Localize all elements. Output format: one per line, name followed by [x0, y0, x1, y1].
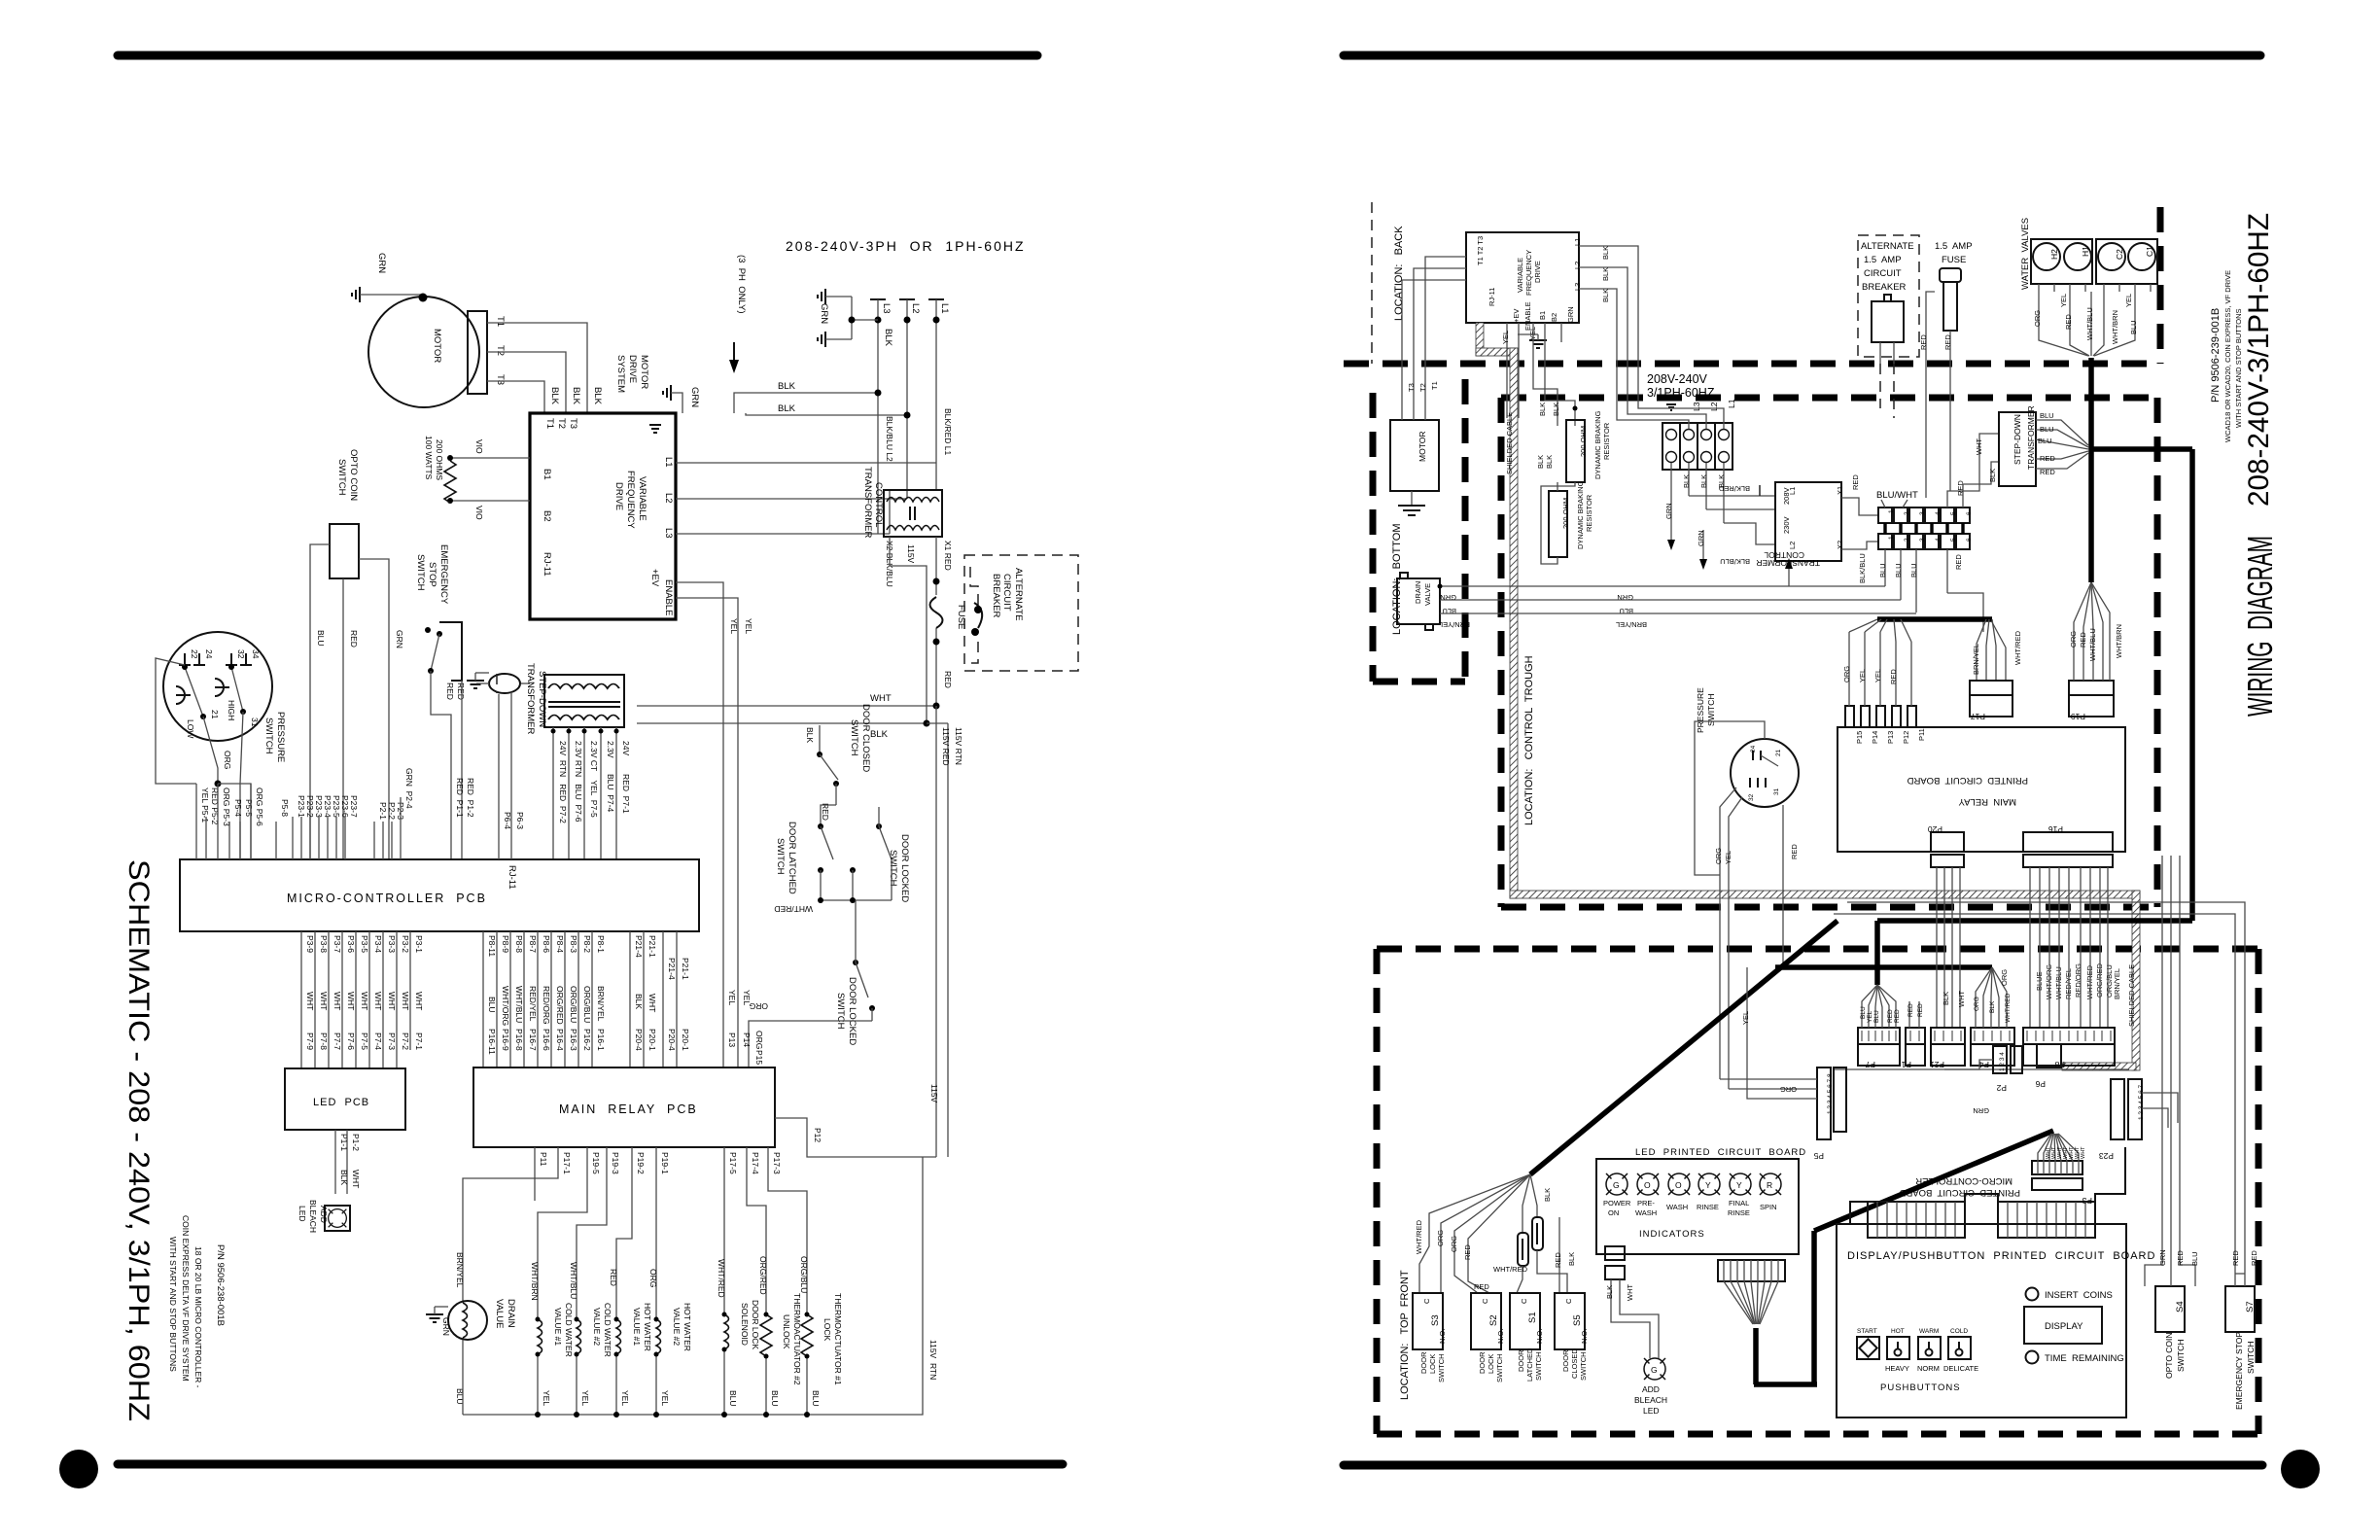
- main relay PCB U4: [473, 1067, 775, 1147]
- svg-text:WHT: WHT: [401, 992, 410, 1010]
- svg-text:LED: LED: [297, 1206, 307, 1222]
- svg-text:BLK/BLU: BLK/BLU: [1858, 553, 1867, 583]
- svg-text:VALUE #2: VALUE #2: [592, 1308, 602, 1346]
- ground pin symbol in VFD: [649, 424, 661, 426]
- circuit breaker CB1 alternate dashed box: [964, 555, 1078, 671]
- svg-text:RED: RED: [2079, 632, 2087, 647]
- wire pin6 top: [1963, 462, 1999, 507]
- svg-text:31: 31: [250, 717, 260, 727]
- wire P17-4: [747, 1147, 766, 1314]
- svg-text:HOT WATER: HOT WATER: [643, 1303, 652, 1351]
- svg-text:N.O.: N.O.: [1438, 1329, 1447, 1344]
- svg-text:T2: T2: [495, 345, 506, 356]
- svg-text:S5: S5: [1572, 1314, 1583, 1326]
- svg-text:R: R: [1767, 1180, 1772, 1190]
- svg-text:BLU: BLU: [2038, 437, 2052, 445]
- svg-text:LATCHED: LATCHED: [1525, 1347, 1534, 1382]
- ground at motor: [352, 287, 360, 302]
- wire pin5 top to step-down: [1947, 434, 1999, 507]
- svg-text:WHT: WHT: [2081, 1146, 2086, 1159]
- wire X1 RED to connector: [1841, 498, 1878, 515]
- LED comb connector: [1718, 1260, 1785, 1281]
- svg-text:ORG: ORG: [1842, 666, 1851, 682]
- wires pressure switch: [1695, 721, 1765, 875]
- wire P19-1: [655, 1147, 657, 1319]
- svg-text:HIGH: HIGH: [227, 700, 236, 720]
- fuse wires: [1925, 303, 1927, 364]
- thick wire trunk A: [2091, 446, 2192, 452]
- svg-text:GRN: GRN: [441, 1317, 451, 1336]
- svg-text:RED: RED: [1887, 1009, 1894, 1023]
- svg-text:P14: P14: [742, 1032, 752, 1047]
- svg-text:CONTROL: CONTROL: [873, 482, 884, 527]
- svg-text:P8-11: P8-11: [487, 935, 497, 957]
- P3 connector comb: [2032, 1161, 2082, 1174]
- svg-text:YEL: YEL: [1741, 1011, 1750, 1025]
- svg-text:VALUE #2: VALUE #2: [672, 1308, 682, 1346]
- WHT labels: [2046, 1146, 2086, 1159]
- wire BLK upper horizontal: [734, 393, 878, 413]
- svg-text:RED/ORG: RED/ORG: [542, 986, 551, 1025]
- svg-text:BLEACH: BLEACH: [1634, 1395, 1667, 1405]
- svg-text:DOOR LATCHED: DOOR LATCHED: [787, 822, 797, 894]
- svg-text:T1: T1: [1430, 381, 1439, 390]
- svg-text:TRANSFORMER: TRANSFORMER: [525, 663, 536, 735]
- svg-text:P19-3: P19-3: [611, 1152, 620, 1174]
- svg-text:RED: RED: [1917, 1003, 1924, 1017]
- svg-text:COLD WATER: COLD WATER: [603, 1303, 612, 1357]
- wire xfmr 2.3V CT: [583, 727, 585, 859]
- switch S3: [1413, 1293, 1443, 1349]
- wire motor T1: [487, 323, 587, 413]
- arrow 3ph only: [733, 342, 735, 362]
- wire opto GRN: [359, 559, 389, 859]
- ground GRN jumper upper: [818, 289, 825, 304]
- svg-text:GRN: GRN: [689, 387, 700, 407]
- svg-text:WHT/BRN: WHT/BRN: [2111, 310, 2119, 344]
- door locked switch 2: [853, 960, 858, 965]
- svg-text:ADD: ADD: [1642, 1384, 1660, 1394]
- LED pre-wash: [1637, 1173, 1659, 1195]
- connector block 1-6 top row: [1878, 507, 1970, 523]
- right page binder dot: [2281, 1450, 2320, 1488]
- svg-text:24V RTN RED P7-2: 24V RTN RED P7-2: [558, 741, 568, 823]
- connector P2: [1993, 1046, 2007, 1073]
- svg-text:RED: RED: [1894, 1009, 1901, 1023]
- pressure switch PS1: [163, 632, 272, 741]
- svg-text:P5-4: P5-4: [233, 799, 243, 817]
- svg-text:ORG/BLU: ORG/BLU: [569, 986, 578, 1023]
- svg-text:P16-8: P16-8: [514, 1029, 524, 1051]
- svg-text:YEL: YEL: [580, 1390, 590, 1406]
- svg-text:BLEACH: BLEACH: [308, 1200, 318, 1233]
- svg-text:6: 6: [1966, 511, 1973, 515]
- svg-text:LOCK: LOCK: [1428, 1354, 1437, 1374]
- svg-text:P17-3: P17-3: [772, 1152, 782, 1174]
- svg-text:ON: ON: [1608, 1208, 1619, 1217]
- svg-text:YEL: YEL: [660, 1390, 670, 1406]
- svg-text:22: 22: [190, 649, 199, 659]
- svg-text:RED P1-1: RED P1-1: [455, 778, 465, 818]
- svg-text:RJ-11: RJ-11: [542, 552, 552, 577]
- node L3 tick: [870, 298, 886, 300]
- svg-text:(3 PH ONLY): (3 PH ONLY): [736, 255, 747, 319]
- wire bottom bus 115V RTN: [463, 1157, 923, 1415]
- svg-text:CIRCUIT: CIRCUIT: [1001, 574, 1012, 612]
- wire VFD L3 to bus: [676, 533, 890, 535]
- svg-text:SYSTEM: SYSTEM: [615, 355, 626, 393]
- svg-text:RED: RED: [2176, 1250, 2185, 1266]
- terminal block TB1: [1662, 423, 1732, 470]
- location control trough box: [1501, 395, 2157, 402]
- svg-text:24V RED P7-1: 24V RED P7-1: [621, 741, 631, 814]
- svg-text:S1: S1: [1527, 1312, 1538, 1323]
- card edge comb 1: [1868, 1202, 1965, 1238]
- fan above P3: [2038, 1134, 2051, 1161]
- fan into P7: [1862, 985, 1877, 1028]
- valve C1: [2128, 243, 2155, 270]
- wires P6: [498, 694, 500, 859]
- svg-text:O: O: [1675, 1180, 1682, 1190]
- svg-text:P20-4: P20-4: [667, 1029, 677, 1051]
- wires into S4: [2145, 856, 2162, 1286]
- LED add bleach: [325, 1206, 350, 1231]
- ground GRN at VFD top: [663, 385, 671, 401]
- svg-text:T1: T1: [544, 418, 555, 429]
- svg-text:BLK: BLK: [1536, 455, 1545, 469]
- svg-text:RED: RED: [2250, 1250, 2258, 1266]
- svg-text:BREAKER: BREAKER: [991, 574, 1001, 618]
- connector P3b pins: [2128, 1079, 2142, 1139]
- svg-text:BRN/YEL: BRN/YEL: [1972, 644, 1980, 675]
- wire VFD T3 to motor: [1402, 280, 1466, 397]
- svg-text:POWER: POWER: [1603, 1199, 1631, 1207]
- svg-text:PRINTED CIRCUIT BOARD: PRINTED CIRCUIT BOARD: [1899, 1187, 2020, 1198]
- svg-text:H2: H2: [2049, 249, 2059, 260]
- svg-text:Y: Y: [1705, 1180, 1711, 1190]
- svg-text:BRN/YEL: BRN/YEL: [596, 986, 606, 1022]
- svg-text:WITH START AND STOP BUTTONS: WITH START AND STOP BUTTONS: [2234, 308, 2243, 428]
- svg-text:T3: T3: [1407, 383, 1416, 392]
- wires P23-1..7: [292, 817, 294, 859]
- svg-text:WHT/RED: WHT/RED: [1493, 1265, 1528, 1274]
- svg-text:SWITCH: SWITCH: [336, 459, 347, 496]
- svg-text:P2-1: P2-1: [378, 802, 388, 820]
- wire BLK lower horizontal: [746, 413, 907, 415]
- svg-text:BLK: BLK: [339, 1170, 349, 1185]
- svg-text:WHT: WHT: [305, 992, 315, 1010]
- drain valve DV1: [448, 1301, 487, 1340]
- long wire row lower: [1834, 1068, 2129, 1070]
- wire pressure switch 22 out: [156, 658, 196, 784]
- card edge comb 2: [1998, 1202, 2095, 1238]
- wire xfmr 2.3V RTN: [568, 727, 570, 859]
- svg-text:WIRING DIAGRAM: WIRING DIAGRAM: [2240, 536, 2280, 717]
- wire VFD L1 to bus: [676, 462, 936, 464]
- svg-text:S2: S2: [1488, 1314, 1499, 1326]
- wire P19-3: [577, 1147, 607, 1319]
- svg-text:+EV: +EV: [1512, 309, 1521, 323]
- pressure switch right page: [1731, 739, 1799, 807]
- wire fuse down: [935, 628, 937, 706]
- svg-text:P23-7: P23-7: [349, 795, 359, 818]
- svg-text:HOT: HOT: [1891, 1328, 1905, 1335]
- svg-text:ORG: ORG: [2000, 969, 2009, 986]
- svg-text:BLU: BLU: [2129, 320, 2138, 334]
- wire P20-1: [676, 931, 678, 1067]
- svg-text:L1: L1: [939, 303, 950, 314]
- wires P16 down to P8: [2029, 867, 2031, 1028]
- svg-text:COIN EXPRESS DELTA VF DRIVE SY: COIN EXPRESS DELTA VF DRIVE SYSTEM: [181, 1215, 191, 1382]
- svg-text:B1: B1: [1538, 311, 1547, 320]
- svg-text:BRN/YEL: BRN/YEL: [2113, 968, 2121, 999]
- wire P5-4: [228, 822, 230, 859]
- LED pcb connector 1: [1605, 1246, 1625, 1260]
- svg-text:115V: 115V: [929, 1084, 939, 1103]
- svg-text:VARIABLE: VARIABLE: [637, 476, 647, 521]
- wire BLU drain: [1440, 599, 1901, 601]
- svg-text:RED: RED: [1554, 1252, 1562, 1268]
- svg-text:ORG: ORG: [2033, 310, 2042, 327]
- location back boundary left (thin dashed): [1371, 202, 1373, 364]
- svg-text:YEL: YEL: [742, 990, 752, 1005]
- svg-text:P/N 9506-239-001B: P/N 9506-239-001B: [2210, 308, 2222, 402]
- svg-text:4: 4: [1935, 511, 1942, 515]
- svg-text:1: 1: [1888, 536, 1895, 540]
- svg-text:P16: P16: [2048, 824, 2063, 834]
- junction 115V: [933, 703, 940, 710]
- svg-text:P3-3: P3-3: [387, 935, 397, 953]
- svg-text:WHT: WHT: [387, 992, 397, 1010]
- svg-text:BLK: BLK: [1682, 474, 1691, 488]
- svg-text:P4: P4: [1978, 1060, 1989, 1069]
- alternate circuit breaker right page: [1858, 235, 1919, 357]
- wire RJ-11 cable: [521, 682, 530, 684]
- wires into P5: [1720, 1078, 1817, 1080]
- svg-text:VALUE #1: VALUE #1: [632, 1308, 642, 1346]
- svg-text:L1: L1: [1573, 238, 1582, 246]
- svg-text:DRIVE: DRIVE: [627, 355, 638, 383]
- svg-text:BLK: BLK: [1942, 992, 1950, 1005]
- svg-text:P19-5: P19-5: [591, 1152, 601, 1174]
- junction GRN-L3: [849, 317, 856, 324]
- op-amp/VFD U1 variable frequency drive: [530, 413, 676, 619]
- svg-text:OPTO COIN: OPTO COIN: [348, 449, 359, 501]
- wire xfmr 24V: [615, 727, 617, 859]
- svg-text:WHT: WHT: [351, 1170, 361, 1188]
- wire YEL ENABLE: [676, 598, 738, 859]
- svg-text:P14: P14: [1871, 731, 1879, 744]
- LED PCB U3: [285, 1068, 405, 1130]
- svg-text:YEL: YEL: [542, 1390, 551, 1406]
- wire P17-3: [768, 1147, 807, 1314]
- svg-text:208V: 208V: [1782, 487, 1791, 505]
- wire WHT horizontal: [637, 705, 936, 707]
- svg-text:SWITCH: SWITCH: [1495, 1353, 1504, 1382]
- wire BRN/YEL drain: [1440, 612, 1916, 614]
- wire P17-5: [723, 1147, 725, 1314]
- svg-text:WHT/BLU: WHT/BLU: [569, 1262, 578, 1299]
- svg-text:FREQUENCY: FREQUENCY: [1524, 250, 1533, 296]
- svg-text:ORG: ORG: [1780, 1085, 1797, 1094]
- svg-text:HEAVY: HEAVY: [1885, 1364, 1909, 1373]
- wire RED from pin5: [1946, 549, 1948, 593]
- svg-text:P21-1: P21-1: [681, 958, 690, 980]
- connector P1: [1906, 1028, 1925, 1044]
- valve pigtails: [2038, 284, 2040, 299]
- svg-text:FUSE: FUSE: [1942, 255, 1966, 265]
- svg-text:ORG/RED: ORG/RED: [555, 986, 565, 1025]
- wires P20 down: [1936, 867, 1938, 1028]
- contact LOW: [176, 686, 185, 704]
- LED power on: [1606, 1173, 1627, 1195]
- control transformer T3 right page: [1775, 482, 1841, 561]
- svg-text:P21-1: P21-1: [647, 935, 657, 958]
- dashed link to breaker: [1759, 485, 1761, 503]
- svg-text:C: C: [1481, 1298, 1489, 1304]
- svg-text:TRANSFORMER: TRANSFORMER: [2026, 405, 2036, 470]
- right page top rule bar: [1344, 52, 2260, 60]
- svg-text:18 OR 20 LB MICRO CONTROLLER -: 18 OR 20 LB MICRO CONTROLLER -: [193, 1246, 203, 1388]
- svg-text:P12: P12: [813, 1128, 822, 1142]
- connector P5: [1817, 1067, 1831, 1139]
- svg-text:RED: RED: [1463, 1244, 1472, 1260]
- wires P1: [1908, 1001, 1910, 1028]
- fan into P19: [2074, 582, 2091, 681]
- svg-text:C: C: [1520, 1298, 1528, 1304]
- svg-text:N.O.: N.O.: [1580, 1329, 1589, 1344]
- location top front box: [1377, 946, 2258, 953]
- svg-text:208-240V-3PH OR 1PH-60HZ: 208-240V-3PH OR 1PH-60HZ: [786, 238, 1026, 254]
- svg-text:WHT/RED: WHT/RED: [2005, 993, 2012, 1023]
- svg-text:LOCATION: TOP FRONT: LOCATION: TOP FRONT: [1399, 1270, 1411, 1400]
- svg-text:PRESSURE: PRESSURE: [275, 712, 286, 762]
- drain valve right page: [1397, 578, 1440, 624]
- svg-text:P8-3: P8-3: [569, 935, 578, 953]
- svg-text:GRN: GRN: [376, 253, 387, 273]
- svg-text:BLK: BLK: [883, 329, 893, 347]
- svg-text:BLK: BLK: [1567, 1252, 1576, 1266]
- svg-text:WHT: WHT: [360, 992, 369, 1010]
- svg-text:WHT: WHT: [414, 992, 424, 1010]
- svg-text:YEL: YEL: [1858, 669, 1867, 682]
- svg-text:P7-7: P7-7: [332, 1032, 342, 1050]
- svg-text:RED: RED: [2040, 468, 2055, 476]
- svg-text:YEL: YEL: [1501, 331, 1510, 344]
- svg-text:L2: L2: [1788, 542, 1797, 549]
- svg-text:P16-9: P16-9: [501, 1029, 510, 1051]
- wire ENABLE down: [1518, 323, 1520, 418]
- wire GRN drain: [1440, 585, 1885, 587]
- svg-text:P1: P1: [1901, 1060, 1911, 1069]
- svg-text:DRAIN: DRAIN: [1414, 581, 1422, 604]
- svg-text:P8-6: P8-6: [542, 935, 551, 953]
- svg-text:YEL: YEL: [620, 1390, 630, 1406]
- svg-text:RED: RED: [445, 682, 455, 700]
- svg-text:P21-4: P21-4: [634, 935, 644, 958]
- svg-text:WHT/RED: WHT/RED: [717, 1259, 726, 1298]
- svg-text:VARIABLE: VARIABLE: [1516, 258, 1524, 293]
- wires into S7: [2234, 926, 2236, 1286]
- wires into P15..P11: [1848, 632, 1850, 706]
- svg-text:1 2 3 4: 1 2 3 4: [1999, 1052, 2006, 1071]
- LED wash: [1668, 1173, 1690, 1195]
- wires P23 right: [2142, 1093, 2178, 1123]
- thick diagonal D1: [1530, 921, 1837, 1174]
- svg-text:SWITCH: SWITCH: [2176, 1339, 2186, 1372]
- wire opto RED: [342, 578, 344, 859]
- svg-text:1.5 AMP: 1.5 AMP: [1935, 241, 1973, 252]
- switch blade high: [231, 667, 243, 712]
- svg-text:BLK: BLK: [778, 403, 796, 414]
- wire BLK horizontal: [637, 722, 927, 724]
- svg-text:BLU: BLU: [1878, 563, 1887, 577]
- svg-text:GRN: GRN: [1617, 593, 1633, 602]
- svg-text:P16-3: P16-3: [569, 1029, 578, 1051]
- door lock solenoid: [724, 1314, 729, 1349]
- wire xfmr 2.3V: [600, 727, 602, 859]
- svg-text:WHT/BLU: WHT/BLU: [2085, 307, 2094, 340]
- svg-text:4: 4: [1935, 538, 1942, 542]
- svg-text:GRN: GRN: [1566, 306, 1575, 323]
- wire estop RED 1: [431, 671, 451, 859]
- svg-text:5: 5: [1950, 511, 1957, 515]
- svg-text:2.3V BLU P7-4: 2.3V BLU P7-4: [606, 741, 615, 813]
- svg-text:WHT: WHT: [1957, 991, 1966, 1007]
- ground GRN jumper lower: [818, 332, 825, 347]
- LED rinse: [1698, 1173, 1720, 1195]
- svg-text:RED: RED: [1790, 844, 1799, 859]
- svg-text:P20-1: P20-1: [681, 1029, 690, 1051]
- svg-text:115V RED: 115V RED: [941, 727, 951, 766]
- svg-text:EMERGENCY STOP: EMERGENCY STOP: [2234, 1332, 2244, 1410]
- svg-text:START: START: [1857, 1328, 1877, 1335]
- svg-text:BLK: BLK: [805, 727, 815, 743]
- svg-text:RED: RED: [943, 671, 953, 688]
- terminal 24: [198, 653, 200, 665]
- svg-text:P16-6: P16-6: [542, 1029, 551, 1051]
- svg-text:ORG P5-6: ORG P5-6: [255, 787, 264, 826]
- svg-text:ORG: ORG: [2069, 631, 2078, 647]
- svg-text:3: 3: [1919, 538, 1926, 542]
- svg-text:WHT: WHT: [332, 992, 342, 1010]
- svg-text:TIME REMAINING: TIME REMAINING: [2045, 1353, 2124, 1364]
- svg-text:P8-2: P8-2: [582, 935, 592, 953]
- fan from bar left: [1849, 619, 1877, 632]
- svg-text:L3: L3: [1692, 402, 1701, 411]
- svg-text:INDICATORS: INDICATORS: [1639, 1229, 1705, 1240]
- svg-text:FINAL: FINAL: [1729, 1199, 1749, 1207]
- display/pushbutton PCB: [1837, 1224, 2126, 1417]
- svg-text:3/1PH-60HZ: 3/1PH-60HZ: [1647, 386, 1715, 400]
- svg-text:DISPLAY/PUSHBUTTON PRINTED C: DISPLAY/PUSHBUTTON PRINTED CIRCUIT BOARD: [1847, 1250, 2155, 1262]
- svg-text:P12: P12: [1902, 731, 1910, 744]
- svg-text:LOCK: LOCK: [822, 1318, 832, 1341]
- svg-text:LOCK: LOCK: [1487, 1354, 1495, 1374]
- svg-text:BLU: BLU: [2040, 425, 2054, 434]
- svg-text:208V-240V: 208V-240V: [1647, 372, 1708, 386]
- shielded cable from RJ-11: [1476, 323, 1484, 356]
- svg-text:STEP-DOWN: STEP-DOWN: [2012, 414, 2022, 465]
- svg-text:LED: LED: [1643, 1406, 1660, 1416]
- wire X2 to connector: [1841, 542, 1878, 549]
- svg-text:OPTO COIN: OPTO COIN: [2164, 1332, 2174, 1379]
- svg-text:P7-9: P7-9: [305, 1032, 315, 1050]
- wire P20-4: [662, 931, 664, 1067]
- wire L1 vertical: [935, 299, 937, 463]
- svg-text:P3-5: P3-5: [360, 935, 369, 953]
- svg-text:ORG: ORG: [1974, 997, 1980, 1011]
